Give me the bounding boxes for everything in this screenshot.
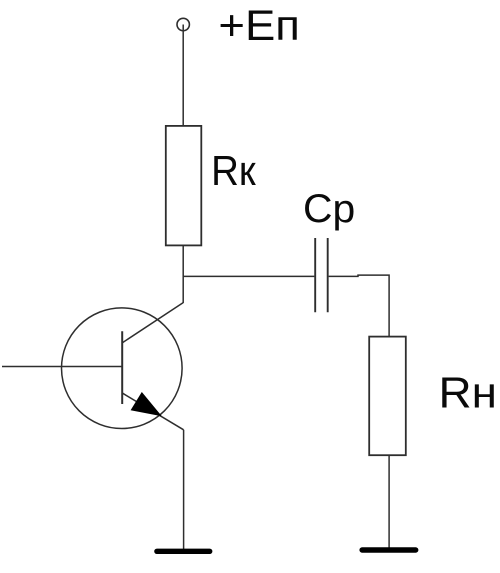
transistor VT1 collector lead bbox=[123, 303, 184, 343]
transistor VT1 body circle bbox=[62, 308, 183, 429]
svg-text:Ср: Ср bbox=[303, 186, 355, 231]
wire Rк bottom to collector bbox=[182, 245, 184, 303]
svg-text:+Еп: +Еп bbox=[218, 2, 300, 50]
svg-text:Rк: Rк bbox=[211, 148, 256, 194]
ground (left, under emitter) bbox=[157, 549, 210, 554]
resistor Rк bbox=[166, 126, 202, 245]
svg-text:Rн: Rн bbox=[439, 368, 498, 417]
wire emitter to ground bbox=[183, 430, 185, 549]
resistor Rн bbox=[369, 337, 406, 456]
ground (right, under Rн) bbox=[362, 547, 416, 552]
wire Ср right plate to Rн top bbox=[329, 275, 390, 337]
wire supply terminal to Rк top bbox=[182, 25, 184, 127]
transistor VT1 emitter arrow bbox=[131, 393, 160, 416]
terminal +Еп (supply pin circle) bbox=[177, 18, 189, 30]
transistor VT1 emitter lead bbox=[123, 393, 184, 430]
wire base (input) bbox=[2, 366, 122, 368]
wire Rн bottom to ground bbox=[388, 455, 390, 549]
wire collector node to Ср left plate bbox=[183, 275, 315, 277]
capacitor Ср bbox=[315, 238, 328, 312]
transistor VT1 base bar bbox=[121, 331, 123, 404]
